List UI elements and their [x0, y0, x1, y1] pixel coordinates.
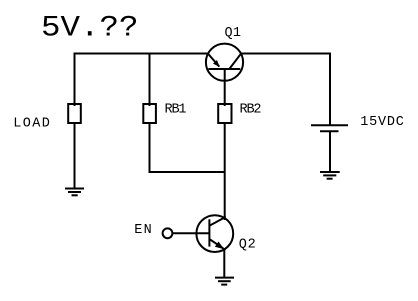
svg-text:RB1: RB1: [165, 103, 187, 118]
svg-text:Q1: Q1: [225, 26, 242, 41]
svg-text:LOAD: LOAD: [13, 116, 50, 131]
svg-text:EN: EN: [134, 223, 152, 238]
svg-text:5V.??: 5V.??: [41, 12, 139, 46]
svg-text:15VDC: 15VDC: [360, 115, 404, 130]
svg-text:RB2: RB2: [240, 103, 262, 118]
svg-text:Q2: Q2: [239, 238, 256, 253]
